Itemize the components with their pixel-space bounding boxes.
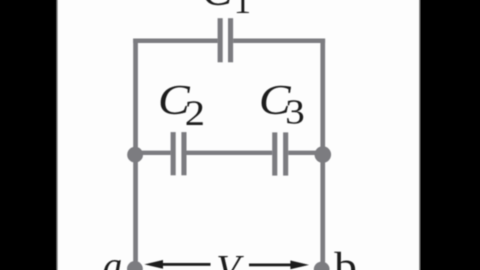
label C1: [202, 0, 251, 21]
svg-text:b: b: [334, 245, 357, 270]
left letterbox edge fade: [56, 0, 59, 270]
white content panel: [57, 0, 420, 270]
label C2: [158, 77, 205, 134]
capacitor C2 left plate: [171, 132, 176, 175]
svg-text:a: a: [103, 244, 123, 270]
svg-text:2: 2: [185, 94, 205, 133]
wire: middle segment between C2 and C3: [187, 151, 273, 155]
voltage arrow right (toward b): [249, 261, 309, 270]
wire: right vertical branch: [320, 39, 325, 270]
node junction dot right middle: [315, 146, 332, 163]
terminal node dot b: [314, 262, 330, 270]
right letterbox edge fade: [418, 0, 421, 270]
node junction dot left middle: [127, 147, 143, 163]
svg-text:1: 1: [234, 0, 251, 21]
label C3: [259, 77, 305, 133]
svg-text:3: 3: [285, 93, 304, 132]
svg-text:V: V: [216, 248, 244, 270]
capacitor C3 right plate: [283, 132, 288, 175]
voltage arrow left (toward a): [144, 260, 210, 269]
capacitor C1 right plate: [228, 18, 233, 62]
wire: left vertical branch: [133, 39, 138, 270]
capacitor C1 left plate: [218, 18, 223, 62]
wire: middle segment left (node to C2): [133, 151, 170, 155]
wire: middle segment right (C3 to node): [288, 151, 325, 155]
wire: top-left segment to C1 left plate: [133, 39, 217, 44]
terminal node dot a: [127, 261, 143, 270]
wire: top-right segment from C1 right plate: [233, 39, 325, 44]
capacitor C2 right plate: [181, 132, 186, 175]
svg-text:C: C: [202, 0, 233, 14]
capacitor C3 left plate: [272, 132, 277, 175]
